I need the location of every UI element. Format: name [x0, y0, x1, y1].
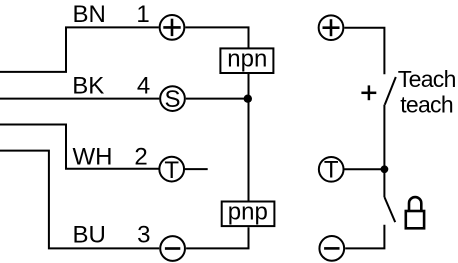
- switch blade 2 (lock switch, open): [384, 197, 395, 222]
- wire vertical bus npn to pnp: [248, 74, 250, 201]
- svg-text:S: S: [164, 86, 180, 113]
- wire + to npn box top: [185, 27, 248, 47]
- terminal circle S (pin 4): [160, 86, 185, 111]
- wire - to pnp box bottom: [186, 227, 248, 248]
- wire BN (pin stub from left edge up to +): [0, 27, 159, 72]
- node junction dot at T level: [381, 165, 389, 173]
- wire T to bus: [345, 168, 385, 170]
- terminal circle + (teach circuit): [319, 15, 344, 40]
- svg-text:2: 2: [134, 144, 147, 171]
- wire S to node junction: [186, 98, 249, 100]
- terminal circle - (pin 3): [160, 236, 185, 261]
- svg-text:WH: WH: [73, 144, 113, 171]
- svg-text:T: T: [324, 156, 339, 183]
- svg-text:npn: npn: [227, 45, 267, 72]
- wire lower contact to -: [345, 225, 384, 249]
- terminal circle T (teach circuit): [319, 157, 344, 182]
- wire switch to lower blade pivot: [383, 105, 385, 197]
- terminal circle T (pin 2): [159, 157, 184, 182]
- npn output box: [220, 48, 273, 73]
- switch blade (teach switch, open): [385, 77, 396, 105]
- svg-text:BK: BK: [72, 72, 104, 99]
- svg-text:T: T: [164, 157, 179, 184]
- wire WH (left edge stepping down to T): [0, 125, 159, 169]
- svg-text:BN: BN: [73, 1, 106, 28]
- wire + to switch top contact: [344, 28, 384, 75]
- lock icon shackle: [409, 197, 421, 211]
- lock icon body: [406, 211, 424, 228]
- wire T stub right: [185, 168, 208, 170]
- wire BU (left edge stepping down to -): [0, 151, 159, 249]
- svg-text:teach: teach: [400, 92, 453, 118]
- wire BK (left edge to S): [0, 98, 159, 100]
- terminal circle - (teach circuit): [319, 236, 344, 261]
- node junction dot on bus at S level: [244, 95, 252, 103]
- svg-text:Teach: Teach: [398, 66, 456, 92]
- pnp output box: [222, 202, 275, 227]
- svg-text:4: 4: [137, 72, 150, 99]
- svg-text:3: 3: [137, 222, 150, 249]
- svg-text:BU: BU: [73, 222, 106, 249]
- svg-text:pnp: pnp: [228, 198, 268, 225]
- label + (teach polarity): [361, 85, 376, 100]
- terminal circle + (pin 1): [160, 15, 185, 40]
- svg-text:1: 1: [136, 1, 149, 28]
